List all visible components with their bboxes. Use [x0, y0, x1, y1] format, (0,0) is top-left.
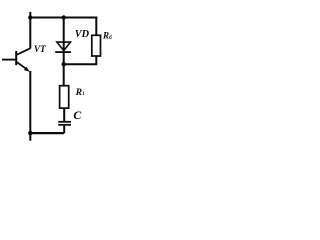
wire diode anode lead [63, 18, 65, 53]
wire connector to Rb [64, 63, 97, 65]
node junction dot bottom-left [28, 131, 32, 135]
wire capacitor bottom lead [63, 125, 65, 133]
wire diode cathode lead [63, 53, 65, 87]
node junction dot top-left [28, 15, 32, 19]
resistor R1 body [60, 86, 69, 108]
node junction dot top-middle [62, 15, 66, 19]
svg-text:VT: VT [34, 44, 46, 54]
svg-text:VD: VD [75, 29, 90, 40]
diode VD triangle [57, 42, 71, 51]
wire base lead [2, 59, 16, 61]
wire Rb bottom lead [95, 56, 97, 66]
transistor Q VT base bar [15, 51, 17, 65]
emitter arrowhead [24, 67, 30, 72]
capacitor C top plate [58, 121, 71, 123]
capacitor C bottom plate [58, 124, 71, 126]
wire collector vertical [29, 12, 31, 49]
wire collector diagonal [17, 48, 31, 55]
wire bottom rail [30, 132, 64, 134]
svg-text:C: C [73, 108, 81, 122]
wire R1 bottom lead [63, 108, 65, 122]
wire emitter vertical [29, 71, 31, 141]
wire top rail [29, 17, 98, 19]
diode VD cathode bar [55, 51, 71, 53]
resistor Rb body [92, 35, 101, 56]
wire Rb top lead [95, 17, 97, 36]
wire emitter diagonal [17, 62, 27, 69]
node junction dot middle [62, 62, 66, 66]
